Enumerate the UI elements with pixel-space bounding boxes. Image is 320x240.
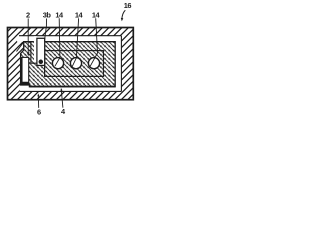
frame inner boundary bottom line [20, 90, 122, 92]
leader line label 4 [61, 90, 63, 108]
frame inner boundary right line [120, 36, 122, 92]
component 14 circle 2 [70, 58, 81, 69]
lead vertical solid bar [20, 57, 22, 85]
arrow for 16 [122, 10, 125, 19]
leader line label 3b [44, 19, 46, 42]
svg-text:2: 2 [26, 10, 30, 19]
component 14 circle 1 [52, 58, 63, 69]
leader line 14 #3 [90, 18, 98, 67]
leader line 14 #1 [55, 18, 60, 66]
contact dot [39, 60, 44, 65]
notch B white channel [34, 36, 37, 63]
leader line label 2 [27, 19, 29, 53]
frame inner boundary top line [19, 35, 121, 37]
leader line label 6 [37, 95, 39, 108]
svg-text:16: 16 [124, 1, 132, 10]
white gap top band [17, 36, 121, 42]
wedge diagonal line [17, 42, 25, 52]
component 14 circle 3 [88, 58, 99, 69]
package thick bottom edge [29, 86, 115, 88]
band A white slot (left) [22, 57, 29, 82]
svg-text:3b: 3b [43, 10, 52, 19]
slot 3b with contact dot [37, 38, 45, 65]
svg-text:6: 6 [37, 108, 41, 117]
cavity outline inside package [45, 51, 104, 77]
white gap right band [115, 36, 121, 91]
lead foot solid bar [20, 83, 30, 86]
white gap bottom band [20, 86, 122, 92]
housing 2 : outer frame with wide hatch [8, 28, 134, 100]
package 4 : molded block with dense hatch [21, 42, 116, 87]
leader line 14 #2 [72, 18, 79, 67]
